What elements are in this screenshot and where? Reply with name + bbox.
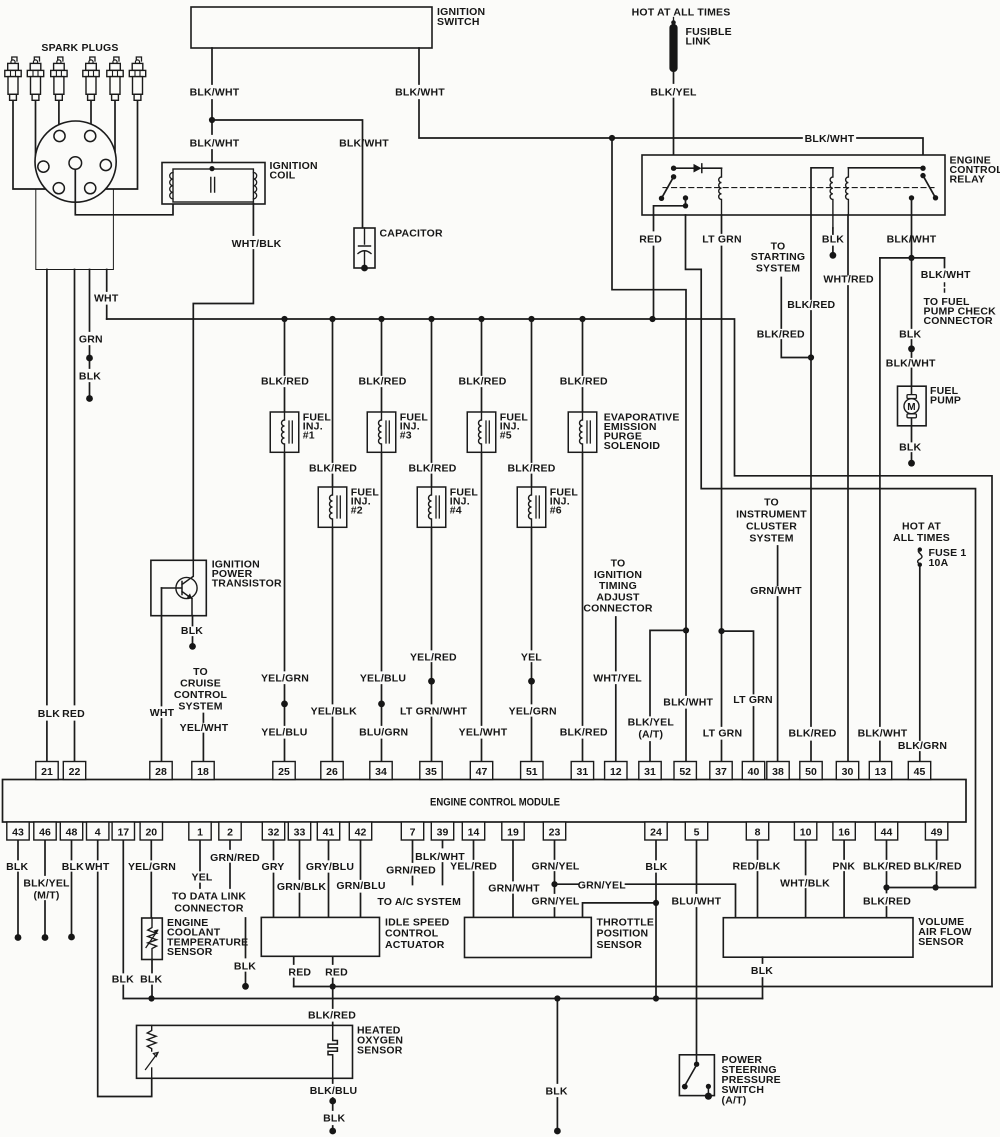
wire GRY pin 32 to ISCA [273,841,275,918]
svg-text:TO: TO [193,666,208,678]
svg-text:LINK: LINK [686,36,712,48]
fuel pump motor circle [904,399,919,414]
relay left contact link [654,198,686,215]
fuse 1 symbol [918,547,922,551]
svg-text:26: 26 [326,766,338,778]
wire GRN/RED pin 2 to data link [229,841,231,889]
svg-text:(M/T): (M/T) [33,889,59,901]
svg-text:GRN/YEL: GRN/YEL [531,861,579,873]
pin 4 (bottom row) [87,822,109,840]
svg-text:RED: RED [639,234,662,246]
junction inj1 feed [281,316,287,322]
svg-text:WHT/RED: WHT/RED [823,274,874,286]
wire BLK/RED inj5 [481,319,483,762]
svg-text:32: 32 [268,826,280,838]
svg-text:SENSOR: SENSOR [167,946,213,958]
svg-text:HOT AT: HOT AT [902,521,941,533]
svg-text:16: 16 [838,826,850,838]
wire BLK/RED inj3 [381,319,383,762]
distributor tower 2 [85,130,96,141]
svg-text:BLK/WHT: BLK/WHT [886,358,936,370]
idle speed control actuator box [261,917,379,956]
relay right contact wire [911,198,913,215]
svg-text:SWITCH: SWITCH [437,16,480,28]
wire BLK to pin 21 [46,270,48,762]
wire YEL/WHT to pin 18 [202,714,204,762]
ignition coil core bars [211,178,215,193]
ground dot pin 43 [15,934,22,941]
svg-text:PUMP: PUMP [930,395,961,407]
junction solenoid feed [579,316,585,322]
wire BLK ground bus [123,998,762,1000]
pin 20 (bottom row) [140,822,162,840]
spark plug 6 [136,57,141,62]
wire BLK/RED pin 44 to VAFS [886,841,888,918]
svg-text:CRUISE: CRUISE [180,678,221,690]
wire spark plug 1 to distributor cap [13,100,59,189]
svg-text:PNK: PNK [832,861,855,873]
wire BLU/WHT pin 5 to pressure switch [696,841,698,1055]
wire BLK/RED purge solenoid [582,319,584,762]
relay right contact dot [909,195,914,200]
svg-text:34: 34 [375,766,387,778]
pin 16 (bottom row) [833,822,855,840]
svg-text:BLK/WHT: BLK/WHT [339,138,389,150]
wire RED ISCA right [332,956,334,986]
relay middle-right coil top feed [848,167,923,169]
relay middle-left coil top jog [811,168,833,215]
pin 44 (bottom row) [875,822,897,840]
junction GRN/YEL branch to VAFS [551,881,557,887]
pin 21 (top row) [36,762,58,780]
wire branch to pin 31 A/T [650,630,686,761]
pin 35 (top row) [420,762,442,780]
power steering pressure switch box [679,1055,714,1096]
relay right pivot dot [920,166,925,171]
svg-text:10: 10 [800,826,812,838]
svg-text:YEL/WHT: YEL/WHT [459,727,508,739]
svg-text:BLK/WHT: BLK/WHT [921,269,971,281]
capacitor symbol [358,228,371,268]
wire GRY/BLU pin 41 to ISCA [328,841,330,918]
ground dot pin 46 [42,934,49,941]
svg-text:WHT/BLK: WHT/BLK [232,238,282,250]
svg-text:THROTTLE: THROTTLE [597,916,655,928]
pin 39 (bottom row) [431,822,453,840]
pin 49 (bottom row) [925,822,947,840]
svg-text:BLK/YEL: BLK/YEL [628,717,675,729]
wire BLK/RED inj6 [531,319,533,762]
wire WHT/YEL to pin 12 [615,617,617,762]
svg-text:37: 37 [715,766,727,778]
svg-text:WHT: WHT [85,861,110,873]
pin 17 (bottom row) [112,822,134,840]
svg-text:25: 25 [278,766,290,778]
svg-text:BLK/WHT: BLK/WHT [395,87,445,99]
fuel injector 4 [417,487,446,527]
relay middle-right coil [846,168,849,215]
wire branch to capacitor [212,120,363,228]
pin 51 (top row) [521,762,543,780]
svg-text:13: 13 [875,766,887,778]
distributor center tower [69,157,82,170]
svg-text:BLK/BLU: BLK/BLU [310,1085,357,1097]
svg-text:WHT/BLK: WHT/BLK [780,878,830,890]
pin 30 (top row) [836,762,858,780]
svg-text:BLK: BLK [751,965,773,977]
ignition power transistor box [151,560,206,615]
svg-text:TO: TO [611,558,626,570]
svg-text:CONNECTOR: CONNECTOR [924,315,993,327]
svg-text:20: 20 [145,826,157,838]
svg-text:INSTRUMENT: INSTRUMENT [736,509,807,521]
wire RED/BLK pin 8 to VAFS [757,841,759,918]
ignition coil right winding [253,173,256,199]
svg-text:CONTROL: CONTROL [385,928,439,940]
relay left coil [719,168,722,215]
svg-text:48: 48 [66,826,78,838]
pin 31 (top row) [571,762,593,780]
svg-text:BLK: BLK [112,973,134,985]
pin 22 (top row) [63,762,85,780]
svg-text:RED/BLK: RED/BLK [732,861,780,873]
engine control relay box [642,155,945,215]
svg-text:BLK/RED: BLK/RED [560,376,608,388]
svg-text:ADJUST: ADJUST [596,591,640,603]
wire WHT/RED relay coil to pin 30 [847,215,849,762]
junction ground stub [554,995,560,1001]
svg-text:BLU/WHT: BLU/WHT [671,896,721,908]
svg-text:BLK: BLK [899,329,921,341]
transistor symbol [176,577,197,598]
svg-text:24: 24 [650,826,662,838]
svg-text:YEL/RED: YEL/RED [410,651,457,663]
wire spark plug 4 to distributor cap [90,100,92,133]
svg-text:WHT/YEL: WHT/YEL [593,673,642,685]
wire YEL pin 1 to data link [199,841,201,889]
pin 10 (bottom row) [794,822,816,840]
svg-text:45: 45 [914,766,926,778]
ignition coil inner box [173,169,253,202]
junction inj2 feed [329,316,335,322]
svg-text:(A/T): (A/T) [638,729,663,741]
pin 47 (top row) [470,762,492,780]
svg-text:31: 31 [577,766,589,778]
svg-text:1: 1 [197,826,203,838]
distributor tower 4 [100,159,111,170]
pin 52 (top row) [674,762,696,780]
wire BLK/WHT ignition switch right to relay [419,48,923,168]
pin 25 (top row) [273,762,295,780]
wire WHT pin 4 to oxygen sensor [98,841,152,1097]
distributor tower 3 [38,161,49,172]
svg-text:#3: #3 [400,430,412,442]
wire GRN/BLU pin 42 to ISCA [360,841,362,918]
svg-text:GRN/BLK: GRN/BLK [277,881,326,893]
svg-text:41: 41 [323,826,335,838]
junction pin24 GRN/YEL [653,900,659,906]
wire BLK relay coil ground [832,228,834,252]
pin 26 (top row) [321,762,343,780]
svg-text:TRANSISTOR: TRANSISTOR [212,578,282,590]
svg-text:2: 2 [227,826,233,838]
svg-text:BLK: BLK [323,1113,345,1125]
svg-text:BLK/WHT: BLK/WHT [887,234,937,246]
pin 40 (top row) [742,762,764,780]
svg-text:BLK/YEL: BLK/YEL [650,87,697,99]
svg-text:50: 50 [805,766,817,778]
ignition coil left winding [170,173,173,199]
junction LT GRN split [718,628,724,634]
wire WHT main feed bus [107,319,992,987]
svg-text:22: 22 [69,766,81,778]
svg-text:COIL: COIL [270,169,296,181]
svg-text:BLK/WHT: BLK/WHT [190,138,240,150]
fusible link bar [669,24,677,72]
distributor cap circle [35,121,116,202]
pin 43 (bottom row) [7,822,29,840]
wire BLK/YEL fusible link to relay [673,72,675,168]
wire BLK/WHT to fuel pump check connector [944,258,946,268]
relay right pivot lower dot [920,173,925,178]
svg-text:SENSOR: SENSOR [918,936,964,948]
svg-text:8: 8 [755,826,761,838]
fuel pump brushes [907,395,916,399]
wire BLK/RED inj2 [332,319,334,762]
wire BLK ground stub [556,999,558,1128]
svg-text:BLK: BLK [38,708,60,720]
svg-text:YEL/GRN: YEL/GRN [509,705,557,717]
svg-text:GRN/RED: GRN/RED [386,864,436,876]
svg-text:40: 40 [748,766,760,778]
engine coolant temperature sensor box [142,918,163,960]
svg-text:GRN: GRN [79,334,103,346]
connector dot inj1 wire [281,701,288,708]
junction BLK/WHT at x612 [609,135,615,141]
wire GRN/WHT pin 19 to TPS [512,841,514,918]
svg-text:GRN/WHT: GRN/WHT [488,882,540,894]
spark plug 1 [12,57,17,62]
wire BLK/YEL pin 46 ground [44,841,46,935]
svg-text:BLK/RED: BLK/RED [863,896,911,908]
distributor body [36,189,114,270]
relay left contact dot [683,195,688,200]
svg-text:BLK/RED: BLK/RED [261,376,309,388]
wire WHT distributor to main feed [106,270,108,320]
wire LT GRN relay to pin 37 [721,215,723,762]
relay right switch arm [923,176,936,198]
svg-text:CAPACITOR: CAPACITOR [380,227,443,239]
wire BLK pin 17 ground bus [122,841,124,999]
wire BLK ECT to ground bus [151,960,153,999]
svg-text:LT GRN: LT GRN [702,234,742,246]
PSPS switch [696,1055,698,1063]
pin 38 (top row) [767,762,789,780]
capacitor ground dot [361,265,368,272]
junction pin 49 bus [933,884,939,890]
svg-text:POSITION: POSITION [597,928,649,940]
svg-text:TO DATA LINK: TO DATA LINK [172,891,247,903]
wire GRN/YEL branch to VAFS [555,884,736,918]
svg-text:BLK/GRN: BLK/GRN [898,740,947,752]
svg-text:LT GRN: LT GRN [703,728,743,740]
wire spark plug 2 to distributor cap [36,100,44,167]
wire RED feed bus [294,986,992,988]
svg-text:BLK/RED: BLK/RED [408,462,456,474]
wire BLK pin 24 to ground bus [655,841,657,999]
svg-text:BLK: BLK [6,861,28,873]
svg-text:GRN/WHT: GRN/WHT [750,585,802,597]
wire BLK/RED ISCA to HO2S heater [332,987,334,1026]
junction pin24 ground bus [653,995,659,1001]
svg-text:46: 46 [39,826,51,838]
junction inj4 feed [428,316,434,322]
wire BLK pin 48 ground [71,841,73,934]
svg-text:YEL/GRN: YEL/GRN [261,673,309,685]
pin 19 (bottom row) [502,822,524,840]
svg-text:52: 52 [679,766,691,778]
relay left contact lower dot [683,203,688,208]
svg-text:SYSTEM: SYSTEM [749,533,793,545]
svg-text:49: 49 [931,826,943,838]
svg-text:BLK: BLK [140,973,162,985]
svg-text:BLK: BLK [62,861,84,873]
relay left switch arm [662,177,674,199]
svg-text:STARTING: STARTING [751,251,806,263]
wire BLK/RED pin 49 to bus [936,841,938,888]
svg-text:BLK/RED: BLK/RED [309,462,357,474]
wire WHT transistor to pin 28 [161,588,163,762]
wire spark plug 3 to distributor cap [58,100,60,133]
pin 28 (top row) [150,762,172,780]
svg-text:BLK: BLK [79,370,101,382]
svg-text:7: 7 [410,826,416,838]
svg-text:BLK: BLK [234,960,256,972]
connector dot fuel pump wire [908,345,915,352]
connector dot HO2S [329,1098,336,1105]
svg-text:28: 28 [155,766,167,778]
pin 2 (bottom row) [219,822,241,840]
wire BLK fuel pump ground [911,426,913,460]
wire PNK pin 16 to VAFS [843,841,845,918]
junction ECT ground bus [148,995,154,1001]
svg-text:SENSOR: SENSOR [357,1045,403,1057]
pin 50 (top row) [800,762,822,780]
wire BLK/RED bus to VAFS [887,887,976,889]
relay middle-left coil [830,168,833,228]
svg-text:YEL/RED: YEL/RED [450,861,497,873]
svg-text:39: 39 [437,826,449,838]
HO2S sensing element [328,1025,337,1078]
wire BLK/GRN fuse to pin 45 [919,567,921,762]
svg-text:19: 19 [507,826,519,838]
wire GRN/WHT to pin 38 [777,546,779,762]
svg-text:(A/T): (A/T) [722,1095,747,1107]
wire BLK pin 43 ground [17,841,19,935]
wire BLK/WHT split bar [880,257,945,259]
fusible link stem [673,18,675,25]
svg-text:YEL/GRN: YEL/GRN [128,861,176,873]
wire BLK/RED to starting system [781,278,811,358]
pin 41 (bottom row) [317,822,339,840]
fuel injector 1 [270,412,299,452]
svg-text:SYSTEM: SYSTEM [178,701,222,713]
relay left pivot lower dot [671,174,676,179]
wire YEL/RED pin 14 to TPS [473,841,475,918]
fuel injector 3 [367,412,396,452]
svg-text:CLUSTER: CLUSTER [746,521,797,533]
junction ISCA RED bus [330,983,336,989]
wire GRN distributor stub [89,270,91,397]
wire BLK VAFS to ground bus [762,957,764,998]
svg-text:GRN/RED: GRN/RED [210,852,260,864]
svg-text:CONNECTOR: CONNECTOR [583,603,652,615]
pin 46 (bottom row) [34,822,56,840]
svg-text:BLK: BLK [546,1085,568,1097]
wire GRN/BLK pin 33 to ISCA [299,841,301,918]
svg-text:BLK: BLK [899,442,921,454]
wire BLK/WHT switch feed to pin 52 [612,138,686,762]
svg-text:BLK/RED: BLK/RED [757,329,805,341]
svg-text:44: 44 [881,826,893,838]
svg-text:BLK/YEL: BLK/YEL [23,877,70,889]
svg-text:WHT: WHT [94,293,119,305]
wire BLK/WHT ignition switch to coil [211,48,213,166]
svg-text:BLK/RED: BLK/RED [788,728,836,740]
HO2S resistor symbol [147,1025,156,1051]
wire BLK transistor ground [192,616,194,643]
distributor tower 6 [85,183,96,194]
relay left pivot dot [671,166,676,171]
wire GRN/YEL pin 23 to TPS [554,841,556,918]
svg-text:HOT AT ALL TIMES: HOT AT ALL TIMES [632,7,731,19]
pin 1 (bottom row) [189,822,211,840]
pin 23 (bottom row) [543,822,565,840]
svg-text:14: 14 [468,826,480,838]
wire RED ISCA left [293,956,295,986]
svg-text:YEL/BLU: YEL/BLU [360,673,406,685]
svg-text:GRN/YEL: GRN/YEL [578,879,626,891]
pin 18 (top row) [192,762,214,780]
fuel injector 6 [517,487,546,527]
svg-text:#2: #2 [351,505,363,517]
svg-text:IDLE SPEED: IDLE SPEED [385,916,450,928]
svg-text:BLK/WHT: BLK/WHT [858,728,908,740]
junction ignition switch wire split [209,117,215,123]
svg-text:43: 43 [12,826,24,838]
svg-text:35: 35 [425,766,437,778]
svg-text:GRN/BLU: GRN/BLU [336,880,385,892]
distributor tower 1 [54,130,65,141]
pin 14 (bottom row) [462,822,484,840]
spark plug 2 [34,57,39,62]
relay left arm end dot [659,196,664,201]
wire relay output to VAFS bus [686,215,976,888]
spark plug 5 [114,57,119,62]
svg-text:21: 21 [41,766,53,778]
evaporative emission purge solenoid [568,412,597,452]
svg-text:BLK/RED: BLK/RED [308,1010,356,1022]
svg-text:YEL/WHT: YEL/WHT [180,722,229,734]
ignition switch box [191,7,432,48]
svg-text:CONTROL: CONTROL [174,689,228,701]
wire RED relay to main feed [653,215,655,319]
pin 42 (bottom row) [349,822,371,840]
connector dot GRN wire [86,355,93,362]
svg-text:SYSTEM: SYSTEM [756,263,800,275]
junction BLK/WHT to pin 31 branch [683,627,689,633]
svg-text:38: 38 [772,766,784,778]
